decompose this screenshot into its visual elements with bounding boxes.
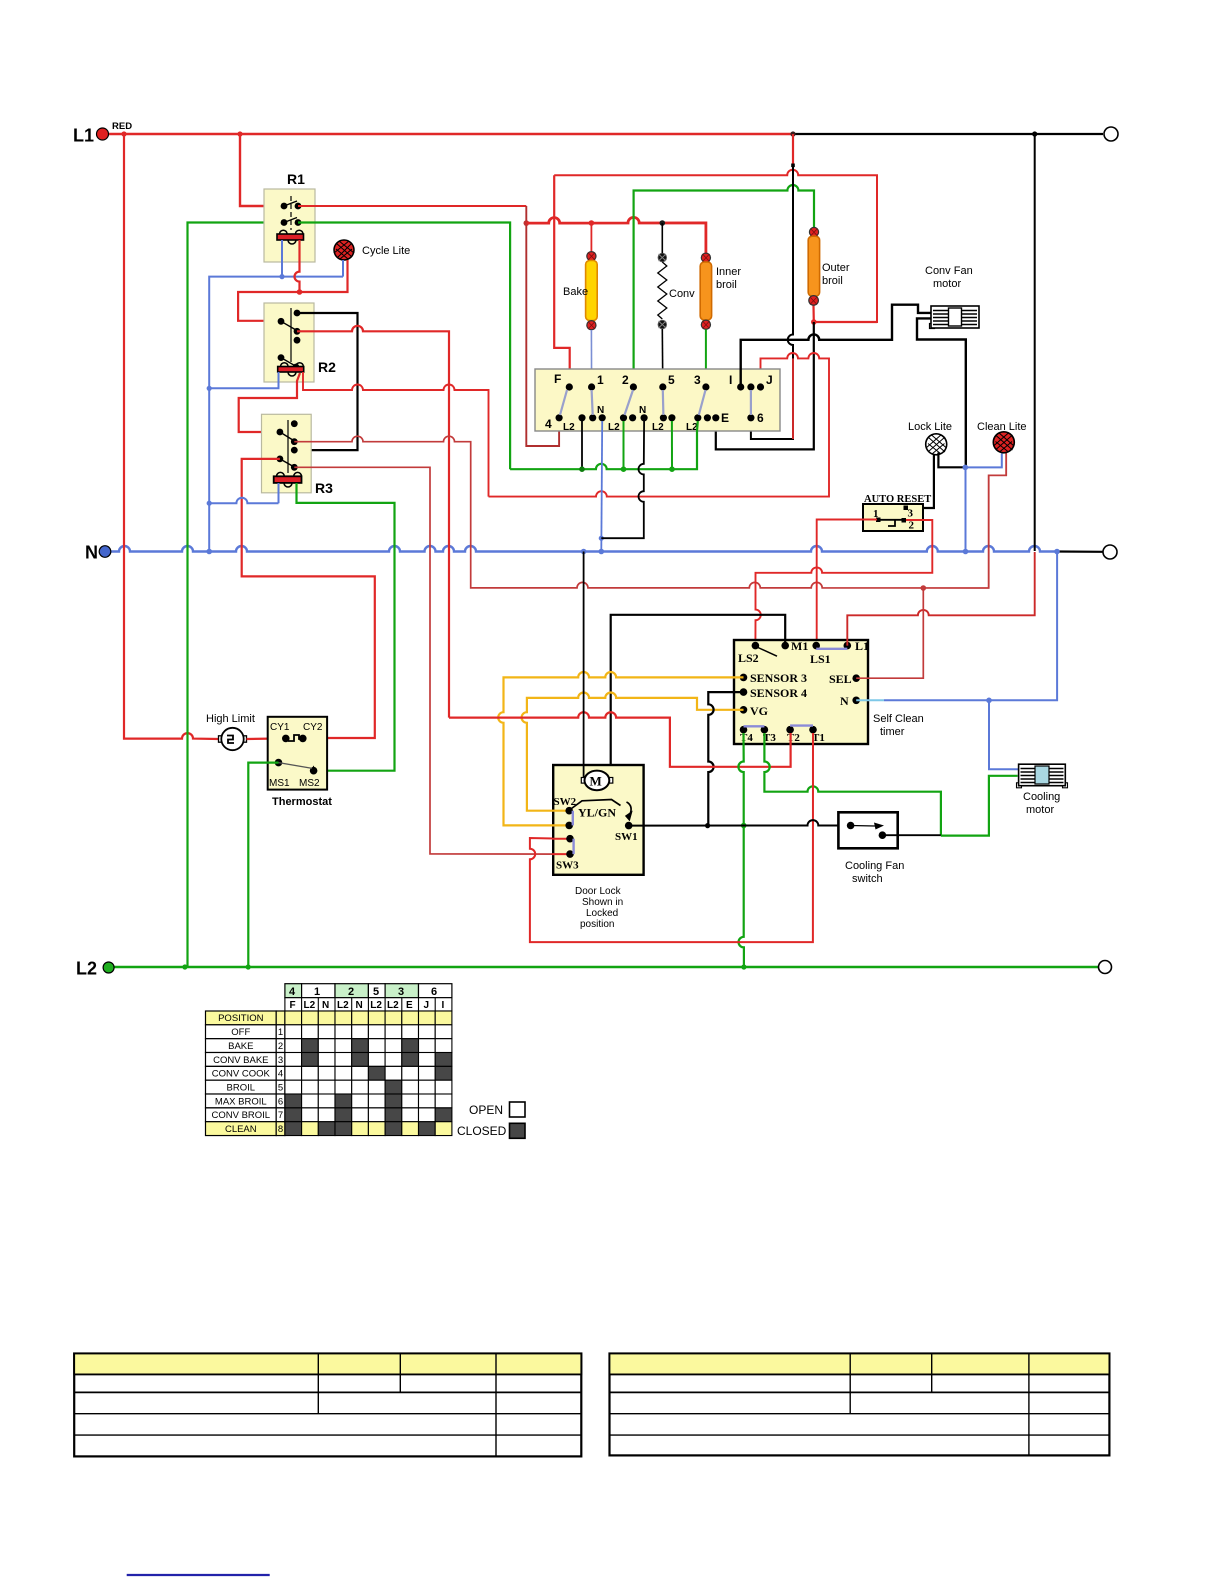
svg-text:8: 8: [278, 1124, 283, 1135]
svg-text:6: 6: [431, 986, 437, 998]
svg-text:POSITION: POSITION: [218, 1013, 264, 1024]
node SW1 pin: [625, 822, 633, 830]
svg-text:L1: L1: [855, 639, 869, 653]
wire L1 drop x=240 to R1 row1: [240, 134, 284, 206]
svg-text:Outer: Outer: [822, 262, 850, 274]
wire E pin black loop up x=813.8: [716, 322, 814, 449]
svg-text:motor: motor: [1026, 804, 1054, 816]
wire timer N pin blue to rail and cooling motor: [856, 699, 884, 701]
wire L1 rail red: [102, 133, 793, 135]
svg-text:T2: T2: [787, 732, 800, 744]
wire R2 top pin black loop to R3: [294, 313, 357, 450]
wire R3 row2 moving feed from thermostat CY2: [242, 459, 375, 738]
node L2 open circle right: [1099, 961, 1112, 974]
svg-text:Thermostat: Thermostat: [272, 796, 332, 808]
svg-text:MS1: MS1: [269, 778, 290, 789]
wire L2 rail green: [110, 966, 1099, 969]
node L2 terminal dot: [103, 962, 114, 973]
svg-text:MS2: MS2: [299, 778, 320, 789]
wire T3 green to cooling fan switch: [764, 733, 941, 835]
node SW2 pins: [565, 807, 573, 815]
svg-text:2: 2: [278, 1041, 283, 1052]
svg-text:L2: L2: [304, 1000, 316, 1011]
wire I pin black to conv fan motor: [741, 305, 932, 387]
svg-text:N: N: [840, 694, 849, 708]
svg-text:SW1: SW1: [615, 831, 638, 843]
svg-text:3: 3: [398, 986, 404, 998]
svg-text:Bake: Bake: [563, 286, 588, 298]
svg-text:broil: broil: [716, 279, 737, 291]
wire R1 row2 green right to big vertical: [298, 223, 510, 470]
motor door lock M: [581, 778, 586, 784]
link underline bottom left: [127, 1574, 270, 1576]
svg-text:Cycle Lite: Cycle Lite: [362, 245, 410, 257]
svg-text:2: 2: [909, 520, 915, 532]
svg-text:CONV BROIL: CONV BROIL: [211, 1110, 270, 1121]
svg-text:2: 2: [348, 986, 354, 998]
svg-text:High Limit: High Limit: [206, 713, 255, 725]
switch AUTO RESET box: [863, 504, 923, 531]
wire M left terminal black from N rail: [583, 552, 585, 779]
wire R2 row1 NO red to x=449 with hop: [297, 326, 449, 718]
svg-text:M: M: [590, 774, 602, 789]
wire R2 coil left blue: [209, 372, 278, 388]
relay R1 contacts: [290, 196, 292, 230]
svg-text:N: N: [322, 1000, 329, 1011]
table bottom right: [610, 1354, 1110, 1456]
svg-text:5: 5: [278, 1082, 283, 1093]
relay R1 coil: [277, 234, 304, 240]
svg-text:1: 1: [278, 1027, 283, 1038]
svg-text:N: N: [356, 1000, 363, 1011]
svg-text:4: 4: [289, 986, 296, 998]
svg-text:N: N: [597, 405, 604, 416]
wire green L2c drop: [671, 421, 673, 469]
relay R2 contacts: [290, 308, 292, 362]
svg-text:5: 5: [373, 986, 379, 998]
svg-text:OFF: OFF: [231, 1027, 250, 1038]
svg-text:Door Lock: Door Lock: [575, 886, 622, 897]
node L1 open circle right: [1104, 127, 1118, 141]
svg-text:1: 1: [597, 373, 604, 387]
wire R3 coil left blue: [209, 483, 278, 503]
svg-text:LS1: LS1: [810, 652, 831, 666]
wire high limit to CY1: [247, 737, 286, 740]
wire R2 coil right red A to J-loop: [303, 372, 489, 497]
wire Clean Lite red down to y588 net: [989, 454, 1007, 589]
svg-text:L2: L2: [608, 422, 620, 433]
svg-text:CY2: CY2: [303, 722, 323, 733]
svg-text:SW3: SW3: [556, 860, 579, 872]
svg-text:T4: T4: [740, 732, 753, 744]
node N open circle right: [1103, 545, 1117, 559]
node pin 2: [630, 383, 637, 390]
heater Inner broil element: [701, 253, 710, 262]
lamp Clean Lite: [993, 432, 1014, 453]
svg-text:Conv: Conv: [669, 288, 695, 300]
svg-text:F: F: [290, 1000, 296, 1011]
svg-text:Inner: Inner: [716, 266, 741, 278]
svg-text:1: 1: [314, 986, 320, 998]
wire M1 black line to door lock motor: [611, 615, 786, 778]
node pin F: [566, 383, 573, 390]
relay R2 coil: [278, 367, 304, 373]
svg-text:L1: L1: [73, 126, 94, 146]
wire outer broil bottom red junction: [813, 300, 877, 322]
svg-text:timer: timer: [880, 726, 905, 738]
table switch position chart: [285, 984, 452, 998]
wire Lock Lite to auto reset pin3: [908, 455, 934, 509]
svg-text:VG: VG: [750, 704, 768, 718]
wire auto reset pin2 red to LS2 line: [755, 520, 932, 646]
svg-text:SENSOR 4: SENSOR 4: [750, 686, 807, 700]
wire thick element bus y=223: [526, 217, 706, 253]
svg-text:CLOSED: CLOSED: [457, 1124, 507, 1138]
heater Bake element: [587, 252, 596, 261]
svg-text:L2: L2: [387, 1000, 399, 1011]
node N rail junction dots: [206, 549, 212, 555]
svg-text:R1: R1: [287, 171, 305, 187]
node timer sensor pins: [740, 674, 748, 682]
svg-text:E: E: [406, 1000, 413, 1011]
wire cooling fan switch right to motor green: [882, 834, 941, 836]
svg-text:L2: L2: [652, 422, 664, 433]
wire Lock Lite right to motor junction: [938, 453, 965, 468]
switch door lock arm: [572, 800, 621, 809]
wire green under-box bus: [510, 421, 698, 469]
svg-text:YL/GN: YL/GN: [578, 806, 616, 820]
svg-text:OPEN: OPEN: [469, 1103, 503, 1117]
svg-text:4: 4: [278, 1069, 283, 1080]
wire R1 coil right red with hop over blue: [295, 240, 300, 292]
svg-text:F: F: [554, 372, 561, 386]
wire Inner broil bottom green to pin3: [705, 330, 707, 388]
wire F feed loop from y=175: [554, 175, 570, 387]
svg-text:N: N: [85, 543, 98, 563]
svg-text:2: 2: [622, 373, 629, 387]
svg-text:L2: L2: [76, 959, 97, 979]
svg-text:3: 3: [278, 1055, 283, 1066]
relay R3 contacts: [287, 420, 289, 473]
svg-text:Clean Lite: Clean Lite: [977, 421, 1027, 433]
svg-text:I: I: [442, 1000, 445, 1011]
wire green outer-broil top from pin2: [634, 185, 814, 387]
svg-text:LS2: LS2: [738, 651, 759, 665]
svg-text:SW2: SW2: [554, 796, 577, 808]
svg-text:E: E: [721, 411, 729, 425]
wire R2 coil right red B to R3 row1: [239, 373, 300, 432]
svg-text:Shown in: Shown in: [582, 897, 623, 908]
switch auto reset contacts: [904, 506, 909, 511]
svg-text:I: I: [729, 373, 732, 387]
svg-text:broil: broil: [822, 275, 843, 287]
svg-text:RED: RED: [112, 121, 132, 132]
node pin 5: [659, 383, 666, 390]
wire blue junction to N rail: [965, 467, 967, 551]
svg-text:SEL: SEL: [829, 672, 852, 686]
wire L1 pin up to L1 rail: [847, 552, 1034, 646]
switch terminal block box: [535, 369, 780, 431]
wire R3 coil right green to thermostat MS2: [297, 483, 395, 771]
wire top loop y=175: [554, 170, 877, 322]
wire R3 row1 NO red to SEL/CleanLite net: [294, 436, 1006, 588]
svg-text:M1: M1: [791, 639, 808, 653]
relay R3 coil: [274, 476, 302, 483]
wire L1 rail black segment: [793, 133, 1103, 135]
wire T1 red to SW3 upper loop: [530, 733, 813, 942]
wire pin L2a black drop to green bus: [581, 421, 583, 469]
node L1 terminal dot: [97, 128, 109, 140]
wire N rail blue with hops: [105, 546, 1057, 552]
svg-text:motor: motor: [933, 278, 961, 290]
svg-text:AUTO RESET: AUTO RESET: [864, 494, 931, 505]
svg-text:CONV BAKE: CONV BAKE: [213, 1055, 268, 1066]
wire blue bus horizontal y=276.6: [209, 277, 343, 552]
header green cells: [285, 984, 302, 998]
svg-text:3: 3: [694, 373, 701, 387]
node pin I: [737, 383, 744, 390]
svg-text:CY1: CY1: [270, 722, 290, 733]
svg-text:L2: L2: [563, 422, 575, 433]
node N terminal dot: [99, 546, 111, 558]
svg-text:N: N: [639, 405, 646, 416]
heater Outer broil element: [809, 227, 818, 236]
wire conv fan motor terminal2 down: [917, 318, 966, 467]
wire J pin red loop y=358: [489, 353, 830, 497]
node timer pins top: [752, 642, 760, 650]
wire blue junction to Clean Lite: [965, 454, 1002, 468]
svg-text:Lock Lite: Lock Lite: [908, 421, 952, 433]
wire Conv top black stub: [661, 223, 663, 253]
node pin 4: [556, 414, 563, 421]
wire VG yellow to SW2: [522, 693, 744, 811]
switch Cooling Fan switch box: [838, 812, 897, 848]
lamp Lock Lite: [926, 434, 947, 455]
svg-text:6: 6: [757, 411, 764, 425]
node L1 junction dots: [121, 131, 126, 136]
wire SEL red: [856, 588, 923, 678]
thermo High Limit: [219, 736, 225, 742]
node bottom row dots: [578, 414, 585, 421]
motor Cooling motor icon: [1017, 764, 1068, 788]
svg-text:MAX BROIL: MAX BROIL: [215, 1096, 267, 1107]
wire MS1 green to L2: [248, 763, 278, 967]
relay R1 box: [264, 189, 315, 262]
wire stubs into door lock: [552, 811, 566, 826]
svg-text:R3: R3: [315, 480, 333, 496]
wire green L2b drop: [623, 421, 625, 469]
svg-text:4: 4: [545, 417, 552, 431]
svg-text:BAKE: BAKE: [228, 1041, 253, 1052]
wire auto reset pin1 red to LS1: [817, 520, 877, 646]
svg-text:R2: R2: [318, 359, 336, 375]
wire Bake top stub: [590, 223, 592, 252]
svg-text:CLEAN: CLEAN: [225, 1124, 257, 1135]
wire Cycle Lite red down-left y=292: [238, 260, 347, 321]
node pin 3: [702, 383, 709, 390]
wire black N2 drop with jogs: [601, 421, 644, 538]
node SW3 pins: [566, 835, 574, 843]
wire Conv bottom black to pin5: [661, 329, 664, 387]
svg-text:switch: switch: [852, 873, 883, 885]
motor Conv Fan motor icon: [930, 306, 980, 329]
svg-text:Cooling Fan: Cooling Fan: [845, 860, 904, 872]
table bottom left: [74, 1354, 581, 1457]
node timer T pins: [740, 726, 748, 734]
wire R1row1 drop x=526 to thick bus and pin4 loop: [526, 206, 559, 446]
wire R2row1 net to T2 long red: [449, 712, 791, 767]
svg-text:BROIL: BROIL: [227, 1082, 256, 1093]
svg-text:5: 5: [668, 373, 675, 387]
svg-text:3: 3: [908, 508, 914, 520]
lamp Cycle Lite: [334, 240, 354, 260]
svg-text:J: J: [424, 1000, 430, 1011]
svg-text:7: 7: [278, 1110, 283, 1121]
svg-text:6: 6: [278, 1096, 283, 1107]
wire Cycle Lite blue: [342, 260, 344, 277]
thermo Thermostat box: [268, 717, 327, 790]
wire N rail black segment: [1057, 550, 1103, 552]
svg-text:SENSOR 3: SENSOR 3: [750, 671, 807, 685]
timer Self Clean timer box: [734, 640, 868, 744]
wire SENSOR3 yellow to door lock: [498, 672, 743, 825]
wire SENSOR4 black to SW1: [708, 692, 743, 826]
svg-text:Locked: Locked: [586, 908, 618, 919]
wire L1/E/6 vertical x=792.6: [751, 134, 793, 439]
svg-text:Conv Fan: Conv Fan: [925, 265, 973, 277]
node CY pins: [282, 735, 290, 743]
wire R3 row2 NC red to SW3-lower: [294, 467, 566, 854]
table body: [206, 1011, 452, 1136]
wire SW1 black to cooling fan switch: [629, 820, 839, 826]
wire blue N drop to rail: [600, 421, 603, 552]
relay R3 box: [262, 414, 312, 493]
svg-text:position: position: [580, 919, 614, 930]
wire Bake bottom blue to pin1: [590, 330, 592, 387]
wire L1 left drop x=124 to high-limit row: [124, 134, 219, 739]
svg-text:Self Clean: Self Clean: [873, 713, 924, 725]
node L2 junction dots: [182, 964, 187, 969]
node pin J pair: [747, 383, 754, 390]
svg-text:L2: L2: [370, 1000, 382, 1011]
wire R1 coil left blue: [281, 240, 283, 277]
wire green R1 row2 left to L2: [188, 223, 285, 968]
relay R2 box: [264, 303, 314, 382]
node MS pins: [275, 759, 283, 767]
resistor Conv element: [658, 253, 666, 261]
wire R1 row1 right to x=526: [298, 205, 526, 207]
svg-text:J: J: [766, 373, 773, 387]
node pin 1: [588, 383, 595, 390]
wire T4 green to L2: [738, 733, 744, 967]
doorlock Door Lock box: [553, 765, 643, 875]
svg-text:Cooling: Cooling: [1023, 791, 1060, 803]
svg-text:CONV COOK: CONV COOK: [212, 1069, 271, 1080]
svg-text:L2: L2: [337, 1000, 349, 1011]
switch blades inside block: [560, 390, 751, 415]
